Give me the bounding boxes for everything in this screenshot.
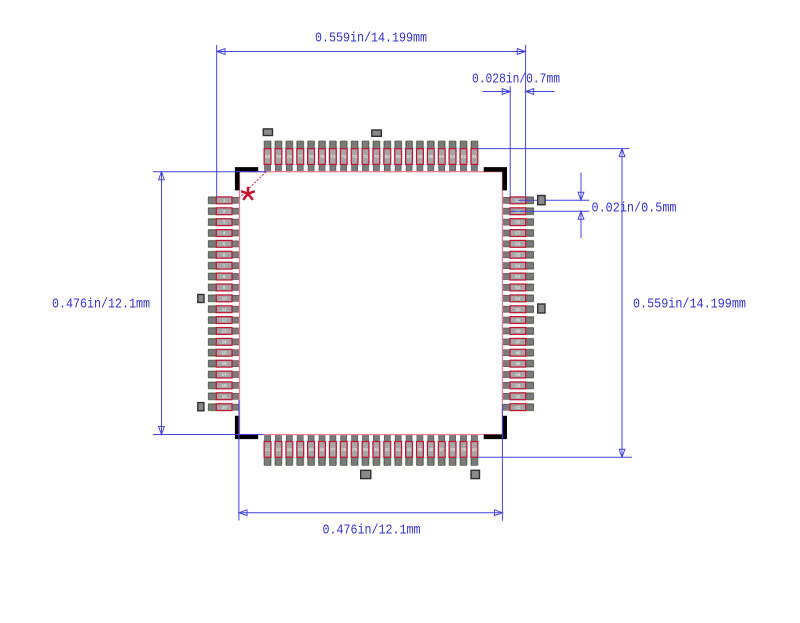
pin 9 (left column) (208, 283, 239, 291)
marker near pin 60 (right) (538, 196, 545, 205)
pin length dimension 0.028in/0.7mm: dimension lines with arrows (483, 91, 511, 93)
svg-text:24: 24 (298, 447, 304, 452)
pin 23 (bottom row) (285, 434, 293, 465)
pin 69 (top row) (383, 141, 391, 172)
pin 14 (left column) (208, 338, 239, 346)
pin 65 (top row) (427, 141, 435, 172)
pin 35 (bottom row) (416, 434, 424, 465)
pin 70 (top row) (372, 141, 380, 172)
pin 80 (top row) (264, 141, 272, 172)
svg-text:70: 70 (374, 154, 380, 159)
svg-text:50: 50 (515, 307, 521, 312)
svg-text:3: 3 (223, 220, 226, 225)
pin 19 (left column) (208, 392, 239, 400)
pin 71 (top row) (362, 141, 370, 172)
pin 24 (bottom row) (296, 434, 304, 465)
pin 55 (right column) (502, 251, 533, 259)
svg-text:75: 75 (319, 154, 325, 159)
svg-text:2: 2 (223, 209, 226, 214)
pin 75 (top row) (318, 141, 326, 172)
pin 3 (left column) (208, 218, 239, 226)
svg-text:33: 33 (396, 447, 402, 452)
svg-text:58: 58 (515, 220, 521, 225)
bottom-left corner bracket (235, 416, 258, 439)
pin 32 (bottom row) (383, 434, 391, 465)
svg-text:21: 21 (265, 447, 271, 452)
svg-text:8: 8 (223, 274, 226, 279)
svg-text:78: 78 (287, 154, 293, 159)
svg-text:20: 20 (222, 405, 228, 410)
bottom dimension 0.476in/12.1mm: extension lines (238, 400, 240, 521)
pin 12 (left column) (208, 316, 239, 324)
pin 10 (left column) (208, 294, 239, 302)
pin 1 (left column) (208, 196, 239, 204)
pin 40 (bottom row) (470, 434, 478, 465)
svg-text:77: 77 (298, 154, 304, 159)
pin 46 (right column) (502, 349, 533, 357)
svg-text:71: 71 (363, 154, 369, 159)
marker near pin 30 (bottom) (361, 470, 371, 478)
svg-text:17: 17 (222, 372, 228, 377)
svg-text:44: 44 (515, 372, 521, 377)
svg-text:7: 7 (223, 263, 226, 268)
bottom-right corner bracket (484, 416, 507, 439)
pin 57 (right column) (502, 229, 533, 237)
svg-text:51: 51 (515, 296, 521, 301)
svg-text:12: 12 (222, 318, 228, 323)
marker near pin 10 (left) (198, 295, 204, 303)
pin 1 marker asterisk (241, 187, 255, 200)
svg-text:73: 73 (341, 154, 347, 159)
svg-text:28: 28 (341, 447, 347, 452)
pin 8 (left column) (208, 273, 239, 281)
svg-text:0.476in/12.1mm: 0.476in/12.1mm (323, 524, 421, 539)
svg-text:14: 14 (222, 340, 228, 345)
pin 20 (left column) (208, 403, 239, 411)
svg-text:32: 32 (385, 447, 391, 452)
svg-text:18: 18 (222, 383, 228, 388)
pin 43 (right column) (502, 381, 533, 389)
svg-text:0.02in/0.5mm: 0.02in/0.5mm (592, 202, 677, 217)
svg-text:6: 6 (223, 252, 226, 257)
pitch dimension 0.02in/0.5mm: extension lines (518, 199, 589, 201)
left dimension 0.476in/12.1mm: extension lines (153, 171, 267, 173)
pin 50 (right column) (502, 305, 533, 313)
svg-text:23: 23 (287, 447, 293, 452)
pitch dimension 0.02in/0.5mm: dimension lines with arrows (580, 173, 582, 201)
package body outline (240, 172, 503, 435)
svg-text:10: 10 (222, 296, 228, 301)
pin 11 (left column) (208, 305, 239, 313)
pin 13 (left column) (208, 327, 239, 335)
svg-text:16: 16 (222, 361, 228, 366)
svg-text:15: 15 (222, 350, 228, 355)
svg-text:66: 66 (417, 154, 423, 159)
svg-text:0.476in/12.1mm: 0.476in/12.1mm (52, 298, 150, 313)
pin 29 (bottom row) (351, 434, 359, 465)
svg-text:26: 26 (319, 447, 325, 452)
pin 72 (top row) (351, 141, 359, 172)
pin 45 (right column) (502, 360, 533, 368)
pin 44 (right column) (502, 371, 533, 379)
top dimension 0.559in/14.199mm: dimension line with arrows (217, 51, 525, 53)
pin 60 (right column) (502, 196, 533, 204)
pin 39 (bottom row) (460, 434, 468, 465)
pin 59 (right column) (502, 207, 533, 215)
pin 61 (top row) (470, 141, 478, 172)
pin 51 (right column) (502, 294, 533, 302)
pin 2 (left column) (208, 207, 239, 215)
pin 68 (top row) (394, 141, 402, 172)
pin 78 (top row) (285, 141, 293, 172)
svg-text:35: 35 (417, 447, 423, 452)
pin 28 (bottom row) (340, 434, 348, 465)
svg-text:37: 37 (439, 447, 445, 452)
pin 17 (left column) (208, 371, 239, 379)
pin 6 (left column) (208, 251, 239, 259)
svg-text:61: 61 (472, 154, 478, 159)
svg-text:42: 42 (515, 394, 521, 399)
pin 58 (right column) (502, 218, 533, 226)
pin 76 (top row) (307, 141, 315, 172)
svg-text:76: 76 (309, 154, 315, 159)
pin 4 (left column) (208, 229, 239, 237)
marker near pin 40 (bottom) (471, 470, 480, 478)
pin 62 (top row) (460, 141, 468, 172)
pin 5 (left column) (208, 240, 239, 248)
svg-text:64: 64 (439, 154, 445, 159)
right dimension 0.559in/14.199mm: dimension line with arrows (621, 149, 623, 458)
svg-text:67: 67 (407, 154, 413, 159)
top-right corner bracket (484, 167, 507, 190)
pin 64 (top row) (438, 141, 446, 172)
marker near pin 70 (top) (372, 130, 382, 136)
svg-text:57: 57 (515, 231, 521, 236)
left dimension 0.476in/12.1mm: dimension line with arrows (161, 172, 163, 435)
pin 33 (bottom row) (394, 434, 402, 465)
svg-text:72: 72 (352, 154, 358, 159)
pin 73 (top row) (340, 141, 348, 172)
pin 18 (left column) (208, 381, 239, 389)
pin 42 (right column) (502, 392, 533, 400)
pin length dimension 0.028in/0.7mm: extension line (509, 86, 511, 197)
pin 49 (right column) (502, 316, 533, 324)
pin 67 (top row) (405, 141, 413, 172)
svg-text:74: 74 (330, 154, 336, 159)
pin 25 (bottom row) (307, 434, 315, 465)
marker near pin 50 (right) (538, 304, 545, 313)
pin 53 (right column) (502, 273, 533, 281)
pin 56 (right column) (502, 240, 533, 248)
pin 15 (left column) (208, 349, 239, 357)
svg-text:54: 54 (515, 263, 521, 268)
svg-text:0.028in/0.7mm: 0.028in/0.7mm (472, 73, 560, 88)
svg-text:62: 62 (461, 154, 467, 159)
svg-text:63: 63 (450, 154, 456, 159)
pin 7 (left column) (208, 262, 239, 270)
pin 16 (left column) (208, 360, 239, 368)
marker near pin 80 (top) (263, 129, 272, 136)
svg-text:69: 69 (385, 154, 391, 159)
svg-text:5: 5 (223, 242, 226, 247)
svg-text:52: 52 (515, 285, 521, 290)
top-left corner bracket (235, 167, 258, 190)
pin 77 (top row) (296, 141, 304, 172)
pin 52 (right column) (502, 283, 533, 291)
svg-text:0.559in/14.199mm: 0.559in/14.199mm (633, 298, 746, 313)
pin 36 (bottom row) (427, 434, 435, 465)
pin 38 (bottom row) (449, 434, 457, 465)
svg-text:0.559in/14.199mm: 0.559in/14.199mm (315, 31, 427, 46)
svg-text:55: 55 (515, 252, 521, 257)
svg-text:48: 48 (515, 329, 521, 334)
pin 34 (bottom row) (405, 434, 413, 465)
svg-text:47: 47 (515, 340, 521, 345)
svg-text:13: 13 (222, 329, 228, 334)
svg-text:39: 39 (461, 447, 467, 452)
marker near pin 20 (left) (198, 403, 204, 411)
svg-text:80: 80 (265, 154, 271, 159)
pin 41 (right column) (502, 403, 533, 411)
svg-text:27: 27 (330, 447, 336, 452)
svg-text:30: 30 (363, 447, 369, 452)
svg-text:9: 9 (223, 285, 226, 290)
svg-text:11: 11 (222, 307, 227, 312)
svg-text:29: 29 (352, 447, 358, 452)
svg-text:41: 41 (515, 405, 521, 410)
pin 27 (bottom row) (329, 434, 337, 465)
pin 74 (top row) (329, 141, 337, 172)
pin 63 (top row) (449, 141, 457, 172)
top dimension 0.559in/14.199mm: extension lines (216, 45, 218, 197)
pin 79 (top row) (274, 141, 282, 172)
svg-text:79: 79 (276, 154, 282, 159)
svg-text:40: 40 (472, 447, 478, 452)
svg-text:43: 43 (515, 383, 521, 388)
svg-text:36: 36 (428, 447, 434, 452)
svg-text:25: 25 (309, 447, 315, 452)
svg-text:68: 68 (396, 154, 402, 159)
pin 21 (bottom row) (264, 434, 272, 465)
right dimension 0.559in/14.199mm: extension lines (478, 148, 630, 150)
svg-text:45: 45 (515, 361, 521, 366)
svg-text:65: 65 (428, 154, 434, 159)
svg-text:53: 53 (515, 274, 521, 279)
svg-text:49: 49 (515, 318, 521, 323)
svg-text:4: 4 (223, 231, 226, 236)
pin 66 (top row) (416, 141, 424, 172)
svg-text:1: 1 (223, 198, 226, 203)
bottom dimension 0.476in/12.1mm: dimension line with arrows (239, 512, 502, 514)
pin 1 corner chamfer line (240, 172, 267, 198)
pin 31 (bottom row) (372, 434, 380, 465)
svg-text:56: 56 (515, 242, 521, 247)
svg-text:34: 34 (407, 447, 413, 452)
pin 48 (right column) (502, 327, 533, 335)
svg-text:38: 38 (450, 447, 456, 452)
svg-text:31: 31 (374, 447, 380, 452)
pin 30 (bottom row) (362, 434, 370, 465)
pin 54 (right column) (502, 262, 533, 270)
svg-text:22: 22 (276, 447, 282, 452)
svg-text:46: 46 (515, 350, 521, 355)
pin 37 (bottom row) (438, 434, 446, 465)
svg-text:19: 19 (222, 394, 228, 399)
pin 26 (bottom row) (318, 434, 326, 465)
pin 47 (right column) (502, 338, 533, 346)
pin 22 (bottom row) (274, 434, 282, 465)
